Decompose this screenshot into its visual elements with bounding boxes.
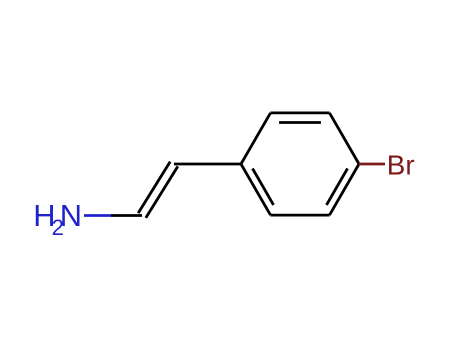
ring edge BL-VL: [241, 164, 271, 215]
ring edge VL-TL: [241, 113, 271, 164]
ring edge BR-BL (bottom): [271, 214, 330, 217]
bond C2-ipso: [174, 163, 241, 166]
bond C1=C2 double line B: [146, 166, 178, 218]
ring edge TL-TR (top): [271, 112, 330, 115]
svg-text:Br: Br: [387, 150, 415, 181]
bond C1=C2 double line A: [138, 162, 170, 214]
ring top inner aromatic line: [279, 121, 321, 124]
ring right-lower inner aromatic line: [327, 169, 348, 205]
svg-text:N: N: [60, 198, 82, 233]
bond N-C1 blue half (near N): [84, 214, 111, 217]
bond C-Br red line: [359, 163, 385, 166]
ring edge VR-BR: [330, 164, 360, 215]
ring left-lower inner aromatic line: [253, 169, 274, 205]
bond N-C1 black half: [111, 214, 142, 217]
ring edge TR-VR: [330, 113, 360, 164]
